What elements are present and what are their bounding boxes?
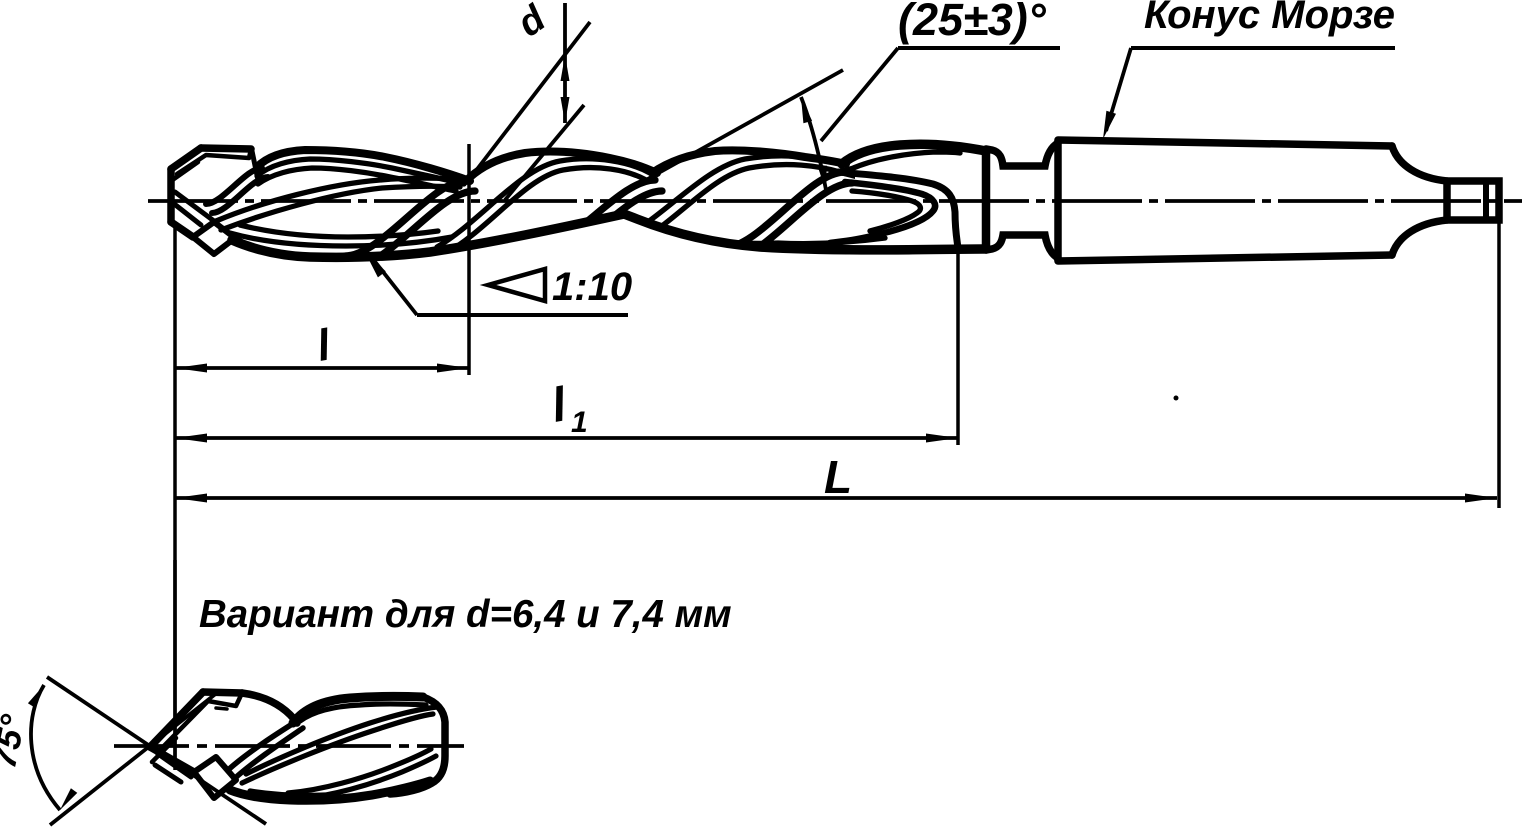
svg-text:L: L [824, 451, 852, 503]
svg-text:(25±3)°: (25±3)° [898, 0, 1047, 45]
svg-text:1:10: 1:10 [552, 265, 632, 309]
svg-text:Вариант для d=6,4 и 7,4 мм: Вариант для d=6,4 и 7,4 мм [199, 593, 732, 636]
svg-text:1: 1 [571, 406, 588, 439]
svg-text:Конус Морзе: Конус Морзе [1144, 0, 1395, 37]
